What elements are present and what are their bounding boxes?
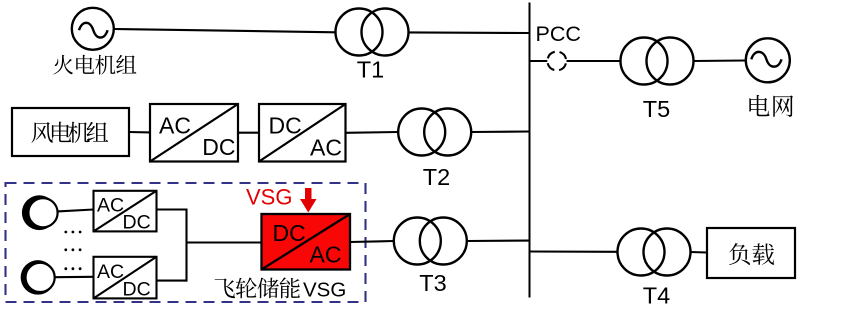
wire G1 to T1: [113, 29, 335, 32]
label 负载: [729, 243, 774, 265]
wire AC/DC 2 to DC collector: [157, 280, 187, 282]
wire bus to breaker: [530, 60, 548, 62]
wire M2 to AC/DC: [56, 276, 94, 279]
svg-text:AC: AC: [310, 242, 342, 268]
ellipsis dots row 2: [64, 248, 81, 251]
arrow VSG pointer (red): [300, 188, 317, 213]
DC collector vertical line: [185, 209, 187, 282]
transformer T5: [621, 38, 694, 85]
transformer T3: [394, 218, 467, 265]
wire inverter to T2: [346, 131, 399, 134]
svg-text:AC: AC: [310, 134, 342, 160]
wire rectifier to DC/AC inverter: [238, 132, 259, 134]
svg-text:T2: T2: [423, 164, 450, 190]
svg-text:AC: AC: [159, 113, 191, 139]
svg-text:DC: DC: [123, 278, 151, 300]
converter AC/DC (wind rectifier): [150, 104, 238, 162]
svg-text:T5: T5: [643, 96, 670, 122]
wire T1 to bus: [409, 31, 530, 34]
transformer T1: [336, 9, 409, 56]
svg-text:VSG: VSG: [246, 185, 292, 210]
svg-text:AC: AC: [97, 261, 124, 283]
flywheel machine M2: [21, 260, 56, 295]
generator G1 thermal unit symbol: [72, 8, 114, 50]
generator grid symbol: [746, 38, 790, 82]
label 飞轮储能VSG: [215, 277, 347, 301]
svg-text:VSG: VSG: [303, 279, 346, 302]
wire M1 to AC/DC: [58, 210, 94, 212]
wire AC/DC 1 to DC collector: [157, 208, 187, 210]
wire VSG inverter to T3: [350, 241, 394, 242]
wire bus to T4: [530, 250, 618, 252]
svg-text:T1: T1: [357, 57, 384, 83]
bus PCC vertical line: [529, 3, 531, 298]
svg-text:DC: DC: [273, 220, 306, 246]
wire DC collector to VSG inverter: [187, 241, 262, 243]
converter DC/AC (wind inverter): [259, 104, 346, 162]
dashed boundary box flywheel storage: [6, 183, 366, 302]
svg-text:DC: DC: [202, 134, 235, 160]
converter AC/DC (flywheel 2): [94, 257, 157, 299]
transformer T2: [398, 109, 471, 156]
wire breaker to T5: [567, 60, 621, 62]
wire T2 to bus: [471, 130, 529, 133]
wire T4 to load: [691, 251, 708, 254]
box wind unit 风电机组: [12, 108, 129, 156]
svg-text:PCC: PCC: [536, 22, 581, 46]
ellipsis dots row 3: [64, 267, 81, 270]
breaker dashed circle: [547, 52, 566, 71]
wire T3 to bus: [467, 240, 529, 242]
flywheel machine M1: [22, 195, 58, 230]
svg-text:DC: DC: [269, 112, 302, 138]
svg-text:T4: T4: [643, 283, 670, 308]
ellipsis dots row 1: [64, 231, 81, 234]
label 电网: [749, 95, 793, 117]
converter AC/DC (flywheel 1): [94, 191, 157, 232]
label 火电机组: [53, 55, 136, 75]
svg-text:AC: AC: [97, 194, 124, 216]
wire wind box to AC/DC converter: [129, 131, 150, 133]
label 风电机组: [31, 122, 108, 143]
wire T5 to grid: [694, 59, 746, 62]
transformer T4: [618, 229, 691, 276]
svg-text:DC: DC: [123, 211, 151, 233]
svg-text:T3: T3: [419, 270, 446, 296]
box load 负载: [707, 228, 795, 278]
converter DC/AC VSG inverter (red box): [262, 214, 351, 270]
